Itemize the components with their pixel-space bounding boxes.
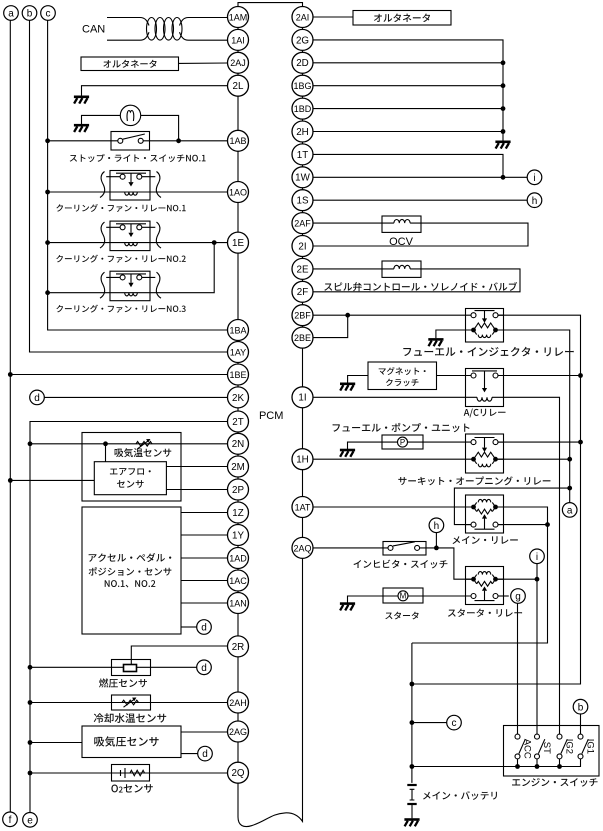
pin 2AJ: [228, 52, 249, 73]
junction rail-c / relay no1: [45, 190, 50, 195]
junction rail-c / relay no3: [45, 290, 50, 295]
svg-text:d: d: [201, 623, 207, 634]
svg-text:2L: 2L: [233, 81, 244, 92]
node d (fuel pressure): [197, 660, 212, 675]
magnet clutch box: [368, 362, 437, 390]
wire pedal sensor to pin 1AD: [181, 557, 228, 559]
OCV box: [382, 216, 421, 232]
svg-text:c: c: [452, 718, 457, 729]
pin 2AQ: [292, 537, 313, 558]
wire 2D row: [313, 62, 503, 64]
wire ACC rail from node g: [517, 603, 519, 734]
wire rail from node c to pin 1BA: [48, 20, 228, 330]
svg-text:PCM: PCM: [259, 410, 283, 422]
junction rail-a / 1BE: [8, 372, 13, 377]
svg-text:2P: 2P: [232, 485, 244, 496]
svg-text:1S: 1S: [297, 196, 309, 207]
relay cooling fan no2: [100, 221, 161, 251]
ground magnet clutch: [340, 382, 355, 385]
junction rail-2T / 2N: [28, 441, 33, 446]
junction ground rail 1BD: [501, 106, 506, 111]
junction A/C contact / rail B+: [578, 373, 583, 378]
svg-text:2Q: 2Q: [231, 768, 244, 779]
relay main: [466, 495, 504, 533]
spill valve solenoid box: [382, 261, 421, 277]
svg-text:2I: 2I: [298, 241, 306, 252]
svg-text:i: i: [533, 173, 535, 184]
node h (inhibitor): [429, 518, 444, 533]
junction rail-2T / O2 sensor: [28, 771, 33, 776]
O2 sensor element: [121, 768, 145, 778]
coolant temp sensor box: [112, 695, 151, 710]
junction circuit opening coil / rail a: [567, 457, 572, 462]
label alternator L: [103, 60, 156, 68]
ground lamp: [74, 124, 89, 127]
junction rail-2T / coolant temp sensor: [28, 700, 33, 705]
pin 2H: [292, 121, 313, 142]
thermistor coolant temp: [122, 698, 139, 708]
svg-text:a: a: [8, 9, 14, 20]
svg-text:2AQ: 2AQ: [293, 543, 311, 553]
wire stub to air flow sensor box: [105, 444, 107, 462]
svg-text:1T: 1T: [297, 150, 308, 161]
label intake air temp sensor: [115, 448, 172, 457]
label A/C relay: [464, 408, 506, 417]
label pedal line3: [105, 580, 156, 587]
svg-text:2F: 2F: [297, 287, 308, 298]
wire air flow sensor to pin 2P: [166, 489, 227, 491]
wire pedal sensor to node d: [181, 626, 197, 628]
wire lamp to 1AB row: [141, 115, 179, 140]
wire ground to starter: [348, 596, 384, 603]
svg-text:2K: 2K: [232, 393, 244, 404]
wire 1BD row: [313, 108, 503, 110]
svg-text:2N: 2N: [232, 439, 245, 450]
wire 2G row to ground rail: [313, 40, 503, 141]
wire A/C relay coil to IG2 rail: [504, 397, 560, 734]
ground fuel injector relay: [428, 338, 443, 341]
wire ground to fuel pump: [348, 442, 383, 449]
node c (battery): [447, 715, 462, 730]
wire main relay outputs to battery rail: [412, 507, 548, 643]
wire manifold pressure sensor to node d: [181, 753, 198, 755]
svg-text:1BA: 1BA: [229, 325, 246, 335]
pin 2N: [228, 433, 249, 454]
wire ground to lamp: [82, 115, 121, 124]
pin 1BG: [292, 75, 313, 96]
coil OCV: [382, 219, 421, 223]
node h (1S): [527, 193, 542, 208]
junction inhibitor / node h: [434, 546, 439, 551]
relay fuel injector: [466, 309, 504, 343]
label spill valve solenoid: [324, 282, 517, 291]
pin 1I: [292, 387, 313, 408]
wire rail from node a: [9, 20, 11, 812]
wire pedal sensor to pin 1Y: [181, 534, 228, 536]
pin 2F: [292, 281, 313, 302]
svg-text:b: b: [27, 9, 33, 20]
svg-text:IG2: IG2: [564, 739, 575, 754]
svg-text:2T: 2T: [232, 417, 243, 428]
label circuit opening relay: [398, 476, 550, 485]
battery main: [407, 785, 416, 818]
wire 2BF row to fuel injector relay: [313, 314, 466, 316]
wire pedal sensor to pin 1AC: [181, 580, 228, 582]
junction rail-a / air flow sensor: [8, 478, 13, 483]
switch stop light SW1: [111, 132, 150, 151]
label pedal line1: [89, 553, 172, 562]
pin 2AF: [292, 213, 313, 234]
switch engine (ACC/ST/IG2/IG1): [504, 726, 600, 777]
label engine switch: [512, 778, 597, 787]
wire 1I row to A/C relay coil: [313, 396, 466, 398]
svg-text:c: c: [46, 9, 51, 20]
svg-text:1H: 1H: [296, 455, 309, 466]
pin 1AI: [228, 29, 249, 50]
lamp stop light: [120, 105, 140, 125]
wire rail-a to air flow sensor: [10, 479, 94, 481]
junction 2BF/2BE: [345, 313, 350, 318]
wire starter relay contact to node g: [498, 595, 509, 597]
wire circuit opening relay contact to rail B+: [498, 441, 581, 443]
pin 2K: [228, 387, 249, 408]
label starter: [385, 612, 418, 620]
svg-text:1AB: 1AB: [229, 136, 246, 146]
relay circuit opening: [466, 434, 504, 473]
wire alternator to pin 2AJ: [179, 62, 228, 64]
PCM bus top bracket: [238, 3, 303, 7]
coil spill valve: [382, 265, 421, 269]
svg-text:2AH: 2AH: [229, 698, 247, 708]
svg-text:2BE: 2BE: [294, 333, 311, 343]
junction ground rail 1BG: [501, 83, 506, 88]
manifold pressure sensor box: [82, 726, 181, 758]
wire manifold pressure sensor to pin 2AG: [181, 731, 228, 733]
pin 2BF: [292, 305, 313, 326]
junction main relay rail: [545, 522, 550, 527]
svg-text:d: d: [34, 393, 40, 404]
node e: [23, 813, 38, 828]
wire node h stub: [435, 533, 437, 548]
wire IG1 stub from node b: [580, 714, 582, 735]
ground battery: [404, 818, 419, 821]
thermistor intake air temp: [136, 439, 152, 449]
wire magnet clutch to A/C relay: [437, 375, 466, 377]
svg-text:1AD: 1AD: [229, 553, 247, 563]
label coolant temp sensor: [94, 713, 166, 723]
svg-text:1BG: 1BG: [293, 81, 311, 91]
pin 2AH: [228, 692, 249, 713]
wire 2H row: [313, 131, 503, 133]
wire rail from node b to pin 1AY: [30, 20, 228, 352]
pin 2M: [228, 456, 249, 477]
node a: [4, 6, 19, 21]
relay cooling fan no1: [100, 171, 161, 201]
wire 1W row to node i: [313, 176, 527, 178]
node b: [22, 6, 37, 21]
node b (IG1): [573, 699, 588, 714]
label magnet clutch line2: [386, 379, 419, 387]
pin 1AD: [228, 548, 249, 569]
label inhibitor switch: [354, 560, 448, 569]
wire battery rail to node c: [412, 722, 447, 724]
svg-text:2H: 2H: [296, 127, 309, 138]
wire main relay contact to rail: [498, 524, 548, 526]
node d (2K): [30, 390, 45, 405]
svg-text:2R: 2R: [232, 642, 245, 653]
wire rail from pin 2T to node e: [30, 422, 228, 813]
junction circuit opening contact / rail B+: [578, 440, 583, 445]
ground fuel pump: [340, 449, 355, 452]
pin 1AO: [228, 182, 249, 203]
label main battery: [423, 791, 497, 800]
wire starter to starter relay contact: [423, 595, 471, 597]
junction ground rail 2D: [501, 60, 506, 65]
svg-text:2AJ: 2AJ: [230, 58, 246, 68]
svg-text:ACC: ACC: [522, 739, 533, 759]
wire fuel injector relay coil to rail a: [498, 330, 570, 503]
wire 1AO row (relay no1): [48, 191, 228, 193]
wire air flow sensor to pin 2M: [166, 466, 227, 468]
junction rail-2T / manifold pressure sensor: [28, 740, 33, 745]
label cooling fan relay no2: [56, 255, 185, 263]
fuel pressure sensor element: [124, 665, 137, 672]
PCM bus bottom wavy edge: [238, 558, 303, 826]
accel pedal position sensor box: [82, 507, 181, 634]
pin 1H: [292, 449, 313, 470]
wire circuit opening relay coil to rail a: [498, 458, 570, 460]
svg-text:1AY: 1AY: [230, 347, 246, 357]
wire 1S row to node h: [313, 199, 527, 201]
label O2 sensor: [111, 784, 152, 793]
wire pin 2AI to alternator: [313, 16, 353, 18]
svg-text:ST: ST: [541, 742, 552, 754]
node d (pedal): [197, 620, 212, 635]
pin 1BE: [228, 364, 249, 385]
svg-text:i: i: [536, 552, 538, 563]
pin 1AB: [228, 130, 249, 151]
label main relay: [453, 536, 518, 544]
wire 2AQ row to inhibitor switch: [313, 547, 383, 549]
pin 2P: [228, 479, 249, 500]
pin 1AN: [228, 593, 249, 614]
label fuel injector relay: [403, 347, 573, 356]
pin 1Y: [228, 525, 249, 546]
node f: [3, 812, 18, 827]
pin 1W: [292, 167, 313, 188]
pin 1S: [292, 190, 313, 211]
svg-text:d: d: [201, 663, 207, 674]
ground starter: [340, 602, 355, 605]
svg-text:1AN: 1AN: [229, 598, 247, 608]
wire fuel injector relay coil to ground: [436, 330, 466, 338]
svg-text:1Z: 1Z: [232, 508, 243, 519]
svg-text:1I: 1I: [298, 393, 306, 404]
svg-text:a: a: [567, 506, 573, 517]
wire starter relay coil to ST rail: [498, 578, 537, 580]
svg-text:OCV: OCV: [389, 236, 414, 248]
wire ST rail: [536, 564, 538, 735]
pin 2D: [292, 52, 313, 73]
svg-text:d: d: [202, 749, 208, 760]
pin 1E: [228, 232, 249, 253]
PCM connector bus left column: [237, 7, 239, 784]
wire ground to magnet clutch: [348, 376, 368, 384]
junction rail-c / stop light switch: [45, 138, 50, 143]
label fuel pressure sensor: [99, 678, 147, 687]
svg-text:1AI: 1AI: [231, 35, 245, 45]
ground 2L: [74, 96, 89, 99]
wire 1BG row: [313, 85, 503, 87]
junction rail-2T / fuel pressure sensor: [28, 665, 33, 670]
wire pin 2E to spill valve solenoid: [313, 268, 382, 270]
wire switch bottom bus: [412, 759, 581, 767]
wire pedal sensor to pin 1AN: [181, 602, 228, 604]
pin 2Q: [228, 762, 249, 783]
pin 1BA: [228, 320, 249, 341]
svg-text:2BF: 2BF: [294, 311, 311, 321]
pin 2T: [228, 411, 249, 432]
wire 1AT row to main relay: [313, 506, 474, 508]
svg-text:2AI: 2AI: [296, 12, 310, 22]
fuel pressure sensor box: [112, 660, 151, 676]
wire relay no3 row: [48, 243, 215, 293]
label cooling fan relay no1: [56, 204, 185, 212]
svg-text:2G: 2G: [296, 35, 309, 46]
pin 2G: [292, 29, 313, 50]
pin 2AI: [292, 7, 313, 28]
relay starter: [466, 567, 504, 605]
wire 1T row: [313, 154, 503, 177]
pin 2I: [292, 236, 313, 257]
junction ground rail 2H: [501, 129, 506, 134]
node a (relay rail): [562, 503, 577, 518]
svg-text:P: P: [400, 438, 405, 447]
wire fuel pressure row: [30, 666, 197, 668]
svg-text:h: h: [532, 196, 538, 207]
label fuel pump unit: [333, 423, 470, 432]
svg-text:2D: 2D: [296, 58, 309, 69]
junction rail-c / relay no2: [45, 240, 50, 245]
pin 2E: [292, 258, 313, 279]
wire 1E row (relay no2): [48, 242, 228, 244]
label pedal line2: [89, 567, 172, 576]
wire OCV return to pin 2I: [313, 223, 528, 246]
O2 sensor box: [112, 765, 150, 782]
air flow sensor inner box: [94, 462, 166, 495]
svg-text:1BD: 1BD: [294, 104, 312, 114]
junction rail a / main relay feed: [567, 486, 572, 491]
node d (manifold pressure): [198, 746, 213, 761]
pin 1AT: [292, 497, 313, 518]
svg-text:1AO: 1AO: [229, 187, 247, 197]
node i (starter): [530, 549, 545, 564]
alternator box left: [81, 57, 179, 71]
svg-text:IG1: IG1: [585, 739, 596, 754]
junction 2N / air flow sensor: [103, 441, 108, 446]
svg-text:h: h: [434, 521, 440, 532]
svg-text:1AM: 1AM: [229, 12, 248, 22]
wire 1AB row: [48, 140, 228, 142]
wire pin 2R to fuel pressure sensor: [131, 646, 227, 665]
svg-text:1Y: 1Y: [232, 530, 244, 541]
wire node d to pin 2K: [44, 396, 227, 398]
wire rail-2T to manifold pressure sensor: [30, 742, 82, 744]
relay cooling fan no3: [100, 271, 161, 301]
wire rail a to main relay contact: [454, 488, 569, 524]
svg-text:2AF: 2AF: [294, 219, 311, 229]
pin 1AC: [228, 570, 249, 591]
pin 2BE: [292, 327, 313, 348]
svg-text:1BE: 1BE: [229, 370, 246, 380]
pin 2L: [228, 75, 249, 96]
wire inhibitor switch to starter relay coil: [426, 548, 471, 579]
label alternator R: [374, 14, 430, 23]
pin 2AG: [228, 721, 249, 742]
node i (1W): [527, 170, 542, 185]
label manifold pressure sensor: [94, 736, 158, 746]
wire pin 2BE to junction: [313, 315, 348, 337]
wire pin 2AF to OCV: [313, 222, 382, 224]
svg-text:1AT: 1AT: [295, 502, 311, 512]
junction starter coil / ST rail: [535, 577, 540, 582]
node g: [511, 589, 526, 604]
switch inhibitor: [383, 542, 426, 556]
svg-text:e: e: [27, 815, 33, 826]
pin 2R: [228, 636, 249, 657]
wire pedal sensor to pin 1Z: [181, 512, 228, 514]
junction 1T/1W: [501, 175, 506, 180]
battery rail: [411, 643, 413, 783]
wire coolant temp row: [30, 702, 228, 704]
svg-text:CAN: CAN: [82, 23, 105, 35]
svg-text:1W: 1W: [295, 173, 310, 184]
label air flow sensor line2: [117, 480, 144, 488]
starter motor box: [383, 588, 423, 603]
label air flow sensor line1: [110, 468, 151, 475]
CAN twisted pair wires: [107, 18, 228, 41]
fuel pump box: [382, 435, 423, 449]
label cooling fan relay no3: [56, 305, 185, 313]
junction battery rail / switch bus: [410, 764, 415, 769]
pin 1T: [292, 144, 313, 165]
PCM connector bus right column: [302, 7, 304, 559]
pin 1AY: [228, 342, 249, 363]
junction lamp / 1AB: [176, 138, 181, 143]
svg-text:g: g: [515, 592, 521, 603]
svg-text:1E: 1E: [232, 238, 244, 249]
svg-text:2AG: 2AG: [229, 727, 247, 737]
label stop light switch no1: [70, 154, 206, 162]
wire fuel pump to circuit opening relay: [423, 441, 466, 443]
pin 1AM: [228, 7, 249, 28]
svg-text:b: b: [578, 702, 584, 713]
air flow sensor outer box: [82, 433, 181, 502]
junction battery rail / node c wire: [410, 720, 415, 725]
wire 1BE row: [10, 374, 227, 376]
svg-text:f: f: [9, 815, 12, 826]
wire 2N row: [30, 443, 228, 445]
svg-text:2E: 2E: [297, 264, 309, 275]
junction battery rail / B+ wire: [410, 682, 415, 687]
svg-text:M: M: [400, 592, 407, 601]
label magnet clutch line1: [379, 367, 426, 375]
wire 1H row to circuit opening relay coil: [313, 458, 466, 460]
relay A/C: [466, 369, 504, 407]
wire spill valve return to pin 2F: [313, 269, 520, 292]
pin 1BD: [292, 98, 313, 119]
svg-text:2M: 2M: [231, 462, 245, 473]
